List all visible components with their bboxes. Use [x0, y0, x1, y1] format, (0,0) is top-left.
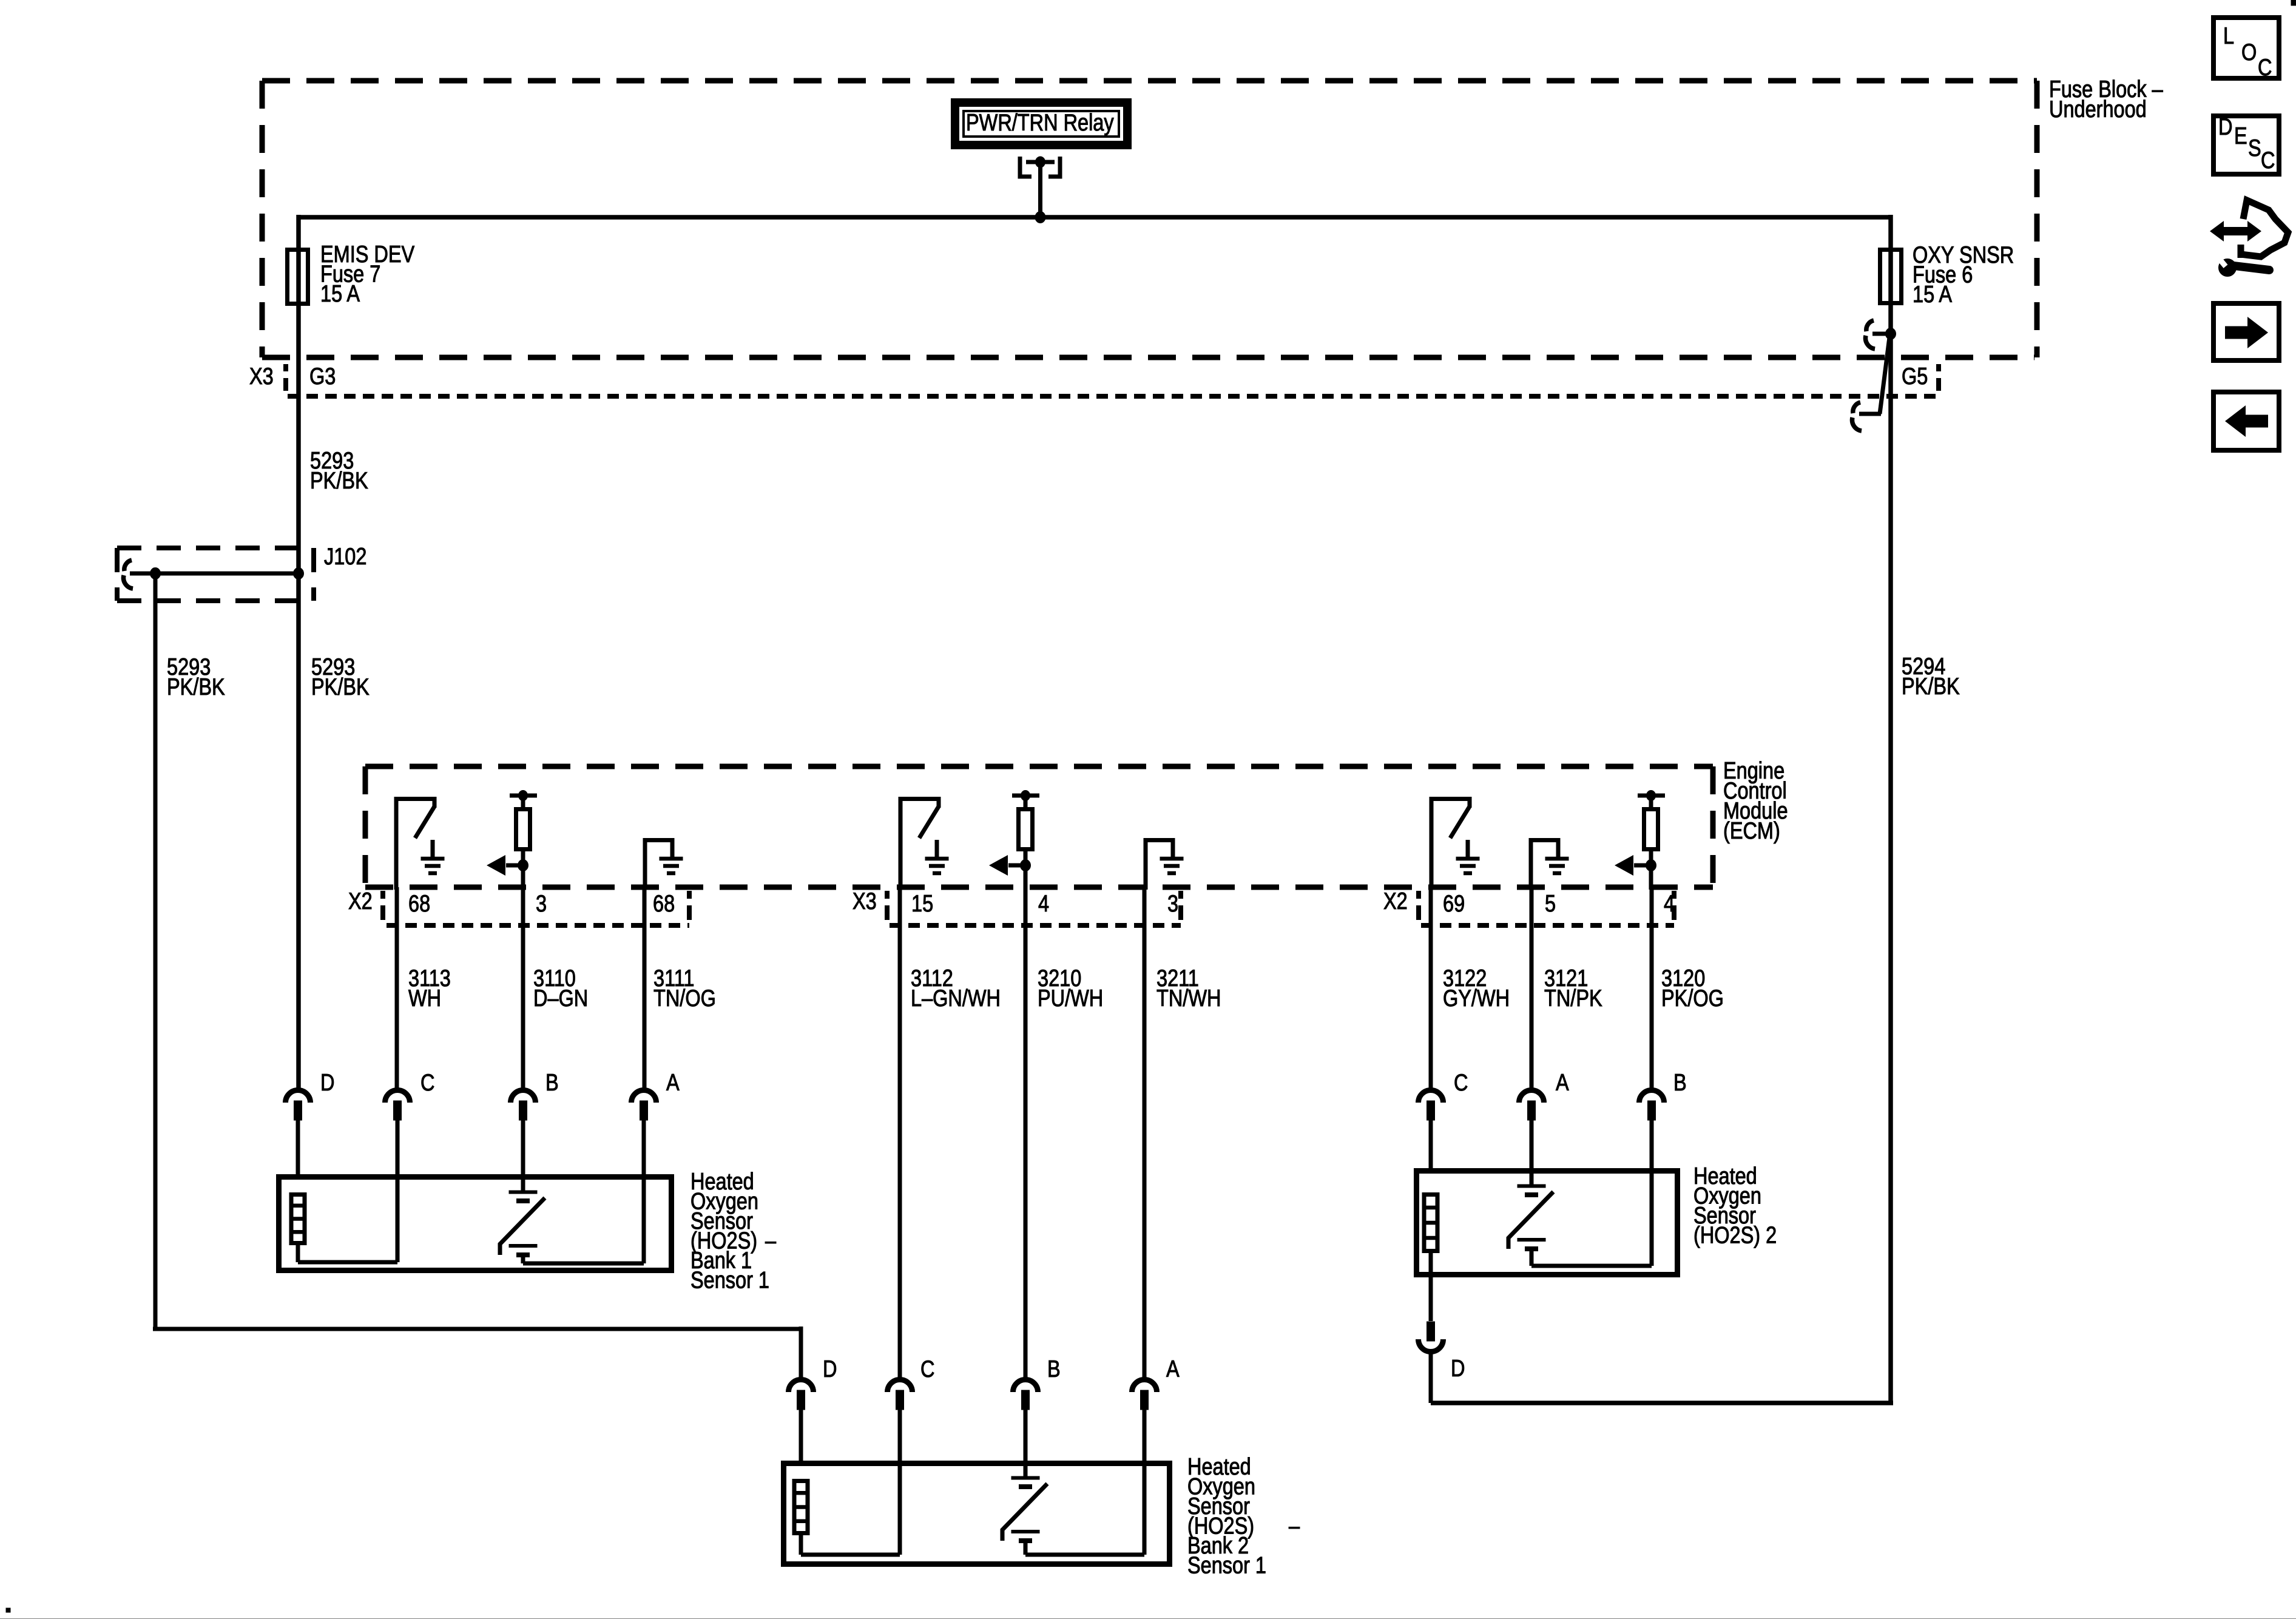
wire right drop — [1888, 215, 1893, 1403]
svg-text:GY/WH: GY/WH — [1443, 985, 1510, 1011]
ECM driver group 1: switch pin 68 — [394, 797, 399, 890]
icon vehicle double-arrow wrench — [2220, 227, 2251, 235]
svg-text:15 A: 15 A — [320, 280, 360, 306]
svg-text:TN/PK: TN/PK — [1544, 985, 1602, 1011]
svg-text:TN/OG: TN/OG — [653, 985, 716, 1011]
splice J102 dashed box — [117, 546, 314, 550]
svg-text:A: A — [1166, 1356, 1180, 1382]
ECM group 2 resistor pin 4 — [1012, 794, 1039, 798]
svg-text:PK/BK: PK/BK — [311, 674, 370, 700]
svg-text:4: 4 — [1664, 890, 1675, 916]
fuse EMIS DEV Fuse 7 15A — [288, 250, 308, 304]
icon LOC — [2213, 18, 2279, 78]
HO2S bank2 sensor1 box — [784, 1464, 1170, 1564]
sensor cell battery bank2 — [1024, 1461, 1028, 1478]
ECM group 1 resistor pin 3 — [510, 794, 537, 798]
svg-text:D: D — [1451, 1355, 1465, 1381]
svg-text:G5: G5 — [1902, 363, 1928, 389]
svg-text:O: O — [2241, 39, 2257, 65]
ECM group 1 ground pin 68 — [643, 838, 647, 890]
svg-text:C: C — [2261, 147, 2275, 173]
svg-text:J102: J102 — [324, 543, 366, 569]
wire bus B+ — [299, 215, 1891, 220]
Fuse Block - Underhood dashed box — [262, 78, 2037, 84]
svg-text:C: C — [420, 1069, 434, 1095]
svg-text:PK/OG: PK/OG — [1661, 985, 1724, 1011]
svg-text:A: A — [1556, 1069, 1569, 1095]
ECM driver group 2: switch pin 15 — [899, 797, 903, 890]
relay contact symbol — [1020, 157, 1032, 177]
svg-text:Sensor 1: Sensor 1 — [690, 1267, 769, 1293]
sensor cell battery bank1 — [521, 1174, 525, 1192]
svg-text:5: 5 — [1545, 890, 1556, 916]
svg-text:PK/BK: PK/BK — [1902, 673, 1960, 699]
svg-text:X2: X2 — [348, 888, 373, 914]
svg-text:D: D — [823, 1356, 837, 1382]
wire J102 splice — [130, 572, 299, 576]
sensor cell battery HO2S2 — [1530, 1168, 1534, 1186]
svg-text:D: D — [320, 1069, 334, 1095]
icon arrow right — [2213, 303, 2279, 360]
svg-text:68: 68 — [408, 890, 430, 916]
svg-text:WH: WH — [408, 985, 441, 1011]
ECM group 3 ground pin 5 — [1529, 838, 1533, 890]
svg-text:C: C — [1454, 1069, 1468, 1095]
svg-text:Sensor 1: Sensor 1 — [1187, 1552, 1266, 1578]
ECM Engine Control Module dashed box — [365, 764, 1713, 769]
svg-text:TN/WH: TN/WH — [1156, 985, 1221, 1011]
svg-text:E: E — [2234, 123, 2247, 149]
svg-text:PU/WH: PU/WH — [1038, 985, 1103, 1011]
svg-text:15: 15 — [911, 890, 933, 916]
wire G5 pass-through — [1880, 337, 1889, 414]
svg-text:(HO2S) 2: (HO2S) 2 — [1693, 1222, 1777, 1248]
svg-text:–: – — [1289, 1513, 1300, 1539]
fuse OXY SNSR Fuse 6 15A — [1880, 250, 1902, 303]
icon arrow left — [2213, 392, 2279, 450]
svg-text:68: 68 — [653, 890, 675, 916]
svg-text:Underhood: Underhood — [2049, 96, 2147, 122]
svg-text:B: B — [545, 1069, 559, 1095]
ECM driver group 3: switch pin 69 — [1430, 797, 1434, 890]
wires ECM to sensors — [395, 887, 399, 1090]
svg-text:69: 69 — [1443, 890, 1465, 916]
svg-text:15 A: 15 A — [1913, 281, 1952, 307]
HO2S2 connector D below — [1419, 1339, 1443, 1352]
svg-text:S: S — [2248, 135, 2261, 161]
wire left branch to HO2S bank2 — [154, 573, 158, 1329]
svg-text:3: 3 — [536, 890, 547, 916]
svg-text:PK/BK: PK/BK — [167, 674, 225, 700]
heater element HO2S2 — [1424, 1195, 1437, 1251]
svg-text:L–GN/WH: L–GN/WH — [911, 985, 1001, 1011]
ECM group 3 resistor pin 4 — [1638, 794, 1665, 798]
svg-text:D: D — [2218, 113, 2232, 140]
svg-text:X3: X3 — [853, 888, 877, 914]
HO2S bank1 sensor1 connectors D C B A — [286, 1090, 311, 1103]
svg-text:G3: G3 — [309, 363, 336, 389]
node G5 junction — [1886, 328, 1896, 340]
wire HO2S2 D to 5294 — [1431, 1401, 1893, 1405]
ECM group 2 ground pin 3 — [1144, 838, 1148, 890]
svg-text:D–GN: D–GN — [533, 985, 588, 1011]
wire relay to bus — [1038, 177, 1042, 217]
node splice dots — [150, 568, 161, 580]
svg-text:L: L — [2223, 22, 2234, 49]
corner artifact marks — [2291, 0, 2296, 5]
svg-text:B: B — [1673, 1069, 1687, 1095]
HO2S2 sensor connectors C A B — [1419, 1090, 1443, 1103]
heater element bank1 — [291, 1195, 305, 1243]
svg-text:–: – — [765, 1228, 776, 1254]
relay PWR/TRN Relay box — [955, 103, 1127, 145]
heater element bank2 — [794, 1481, 808, 1533]
svg-text:A: A — [666, 1069, 680, 1095]
svg-text:PK/BK: PK/BK — [310, 467, 368, 493]
svg-text:C: C — [920, 1356, 934, 1382]
svg-text:X3: X3 — [249, 363, 274, 389]
svg-text:C: C — [2258, 54, 2272, 80]
svg-text:B: B — [1047, 1356, 1061, 1382]
HO2S bank1 sensor1 box — [279, 1177, 672, 1271]
icon DESC — [2213, 116, 2279, 174]
svg-text:X2: X2 — [1383, 888, 1408, 914]
svg-text:4: 4 — [1038, 890, 1049, 916]
HO2S bank2 sensor1 connectors D C B A — [789, 1380, 814, 1393]
HO2S2 sensor box — [1417, 1171, 1678, 1275]
svg-text:3: 3 — [1167, 890, 1178, 916]
wire left drop — [296, 215, 301, 1090]
svg-text:PWR/TRN Relay: PWR/TRN Relay — [966, 109, 1114, 135]
svg-text:(ECM): (ECM) — [1723, 817, 1780, 843]
